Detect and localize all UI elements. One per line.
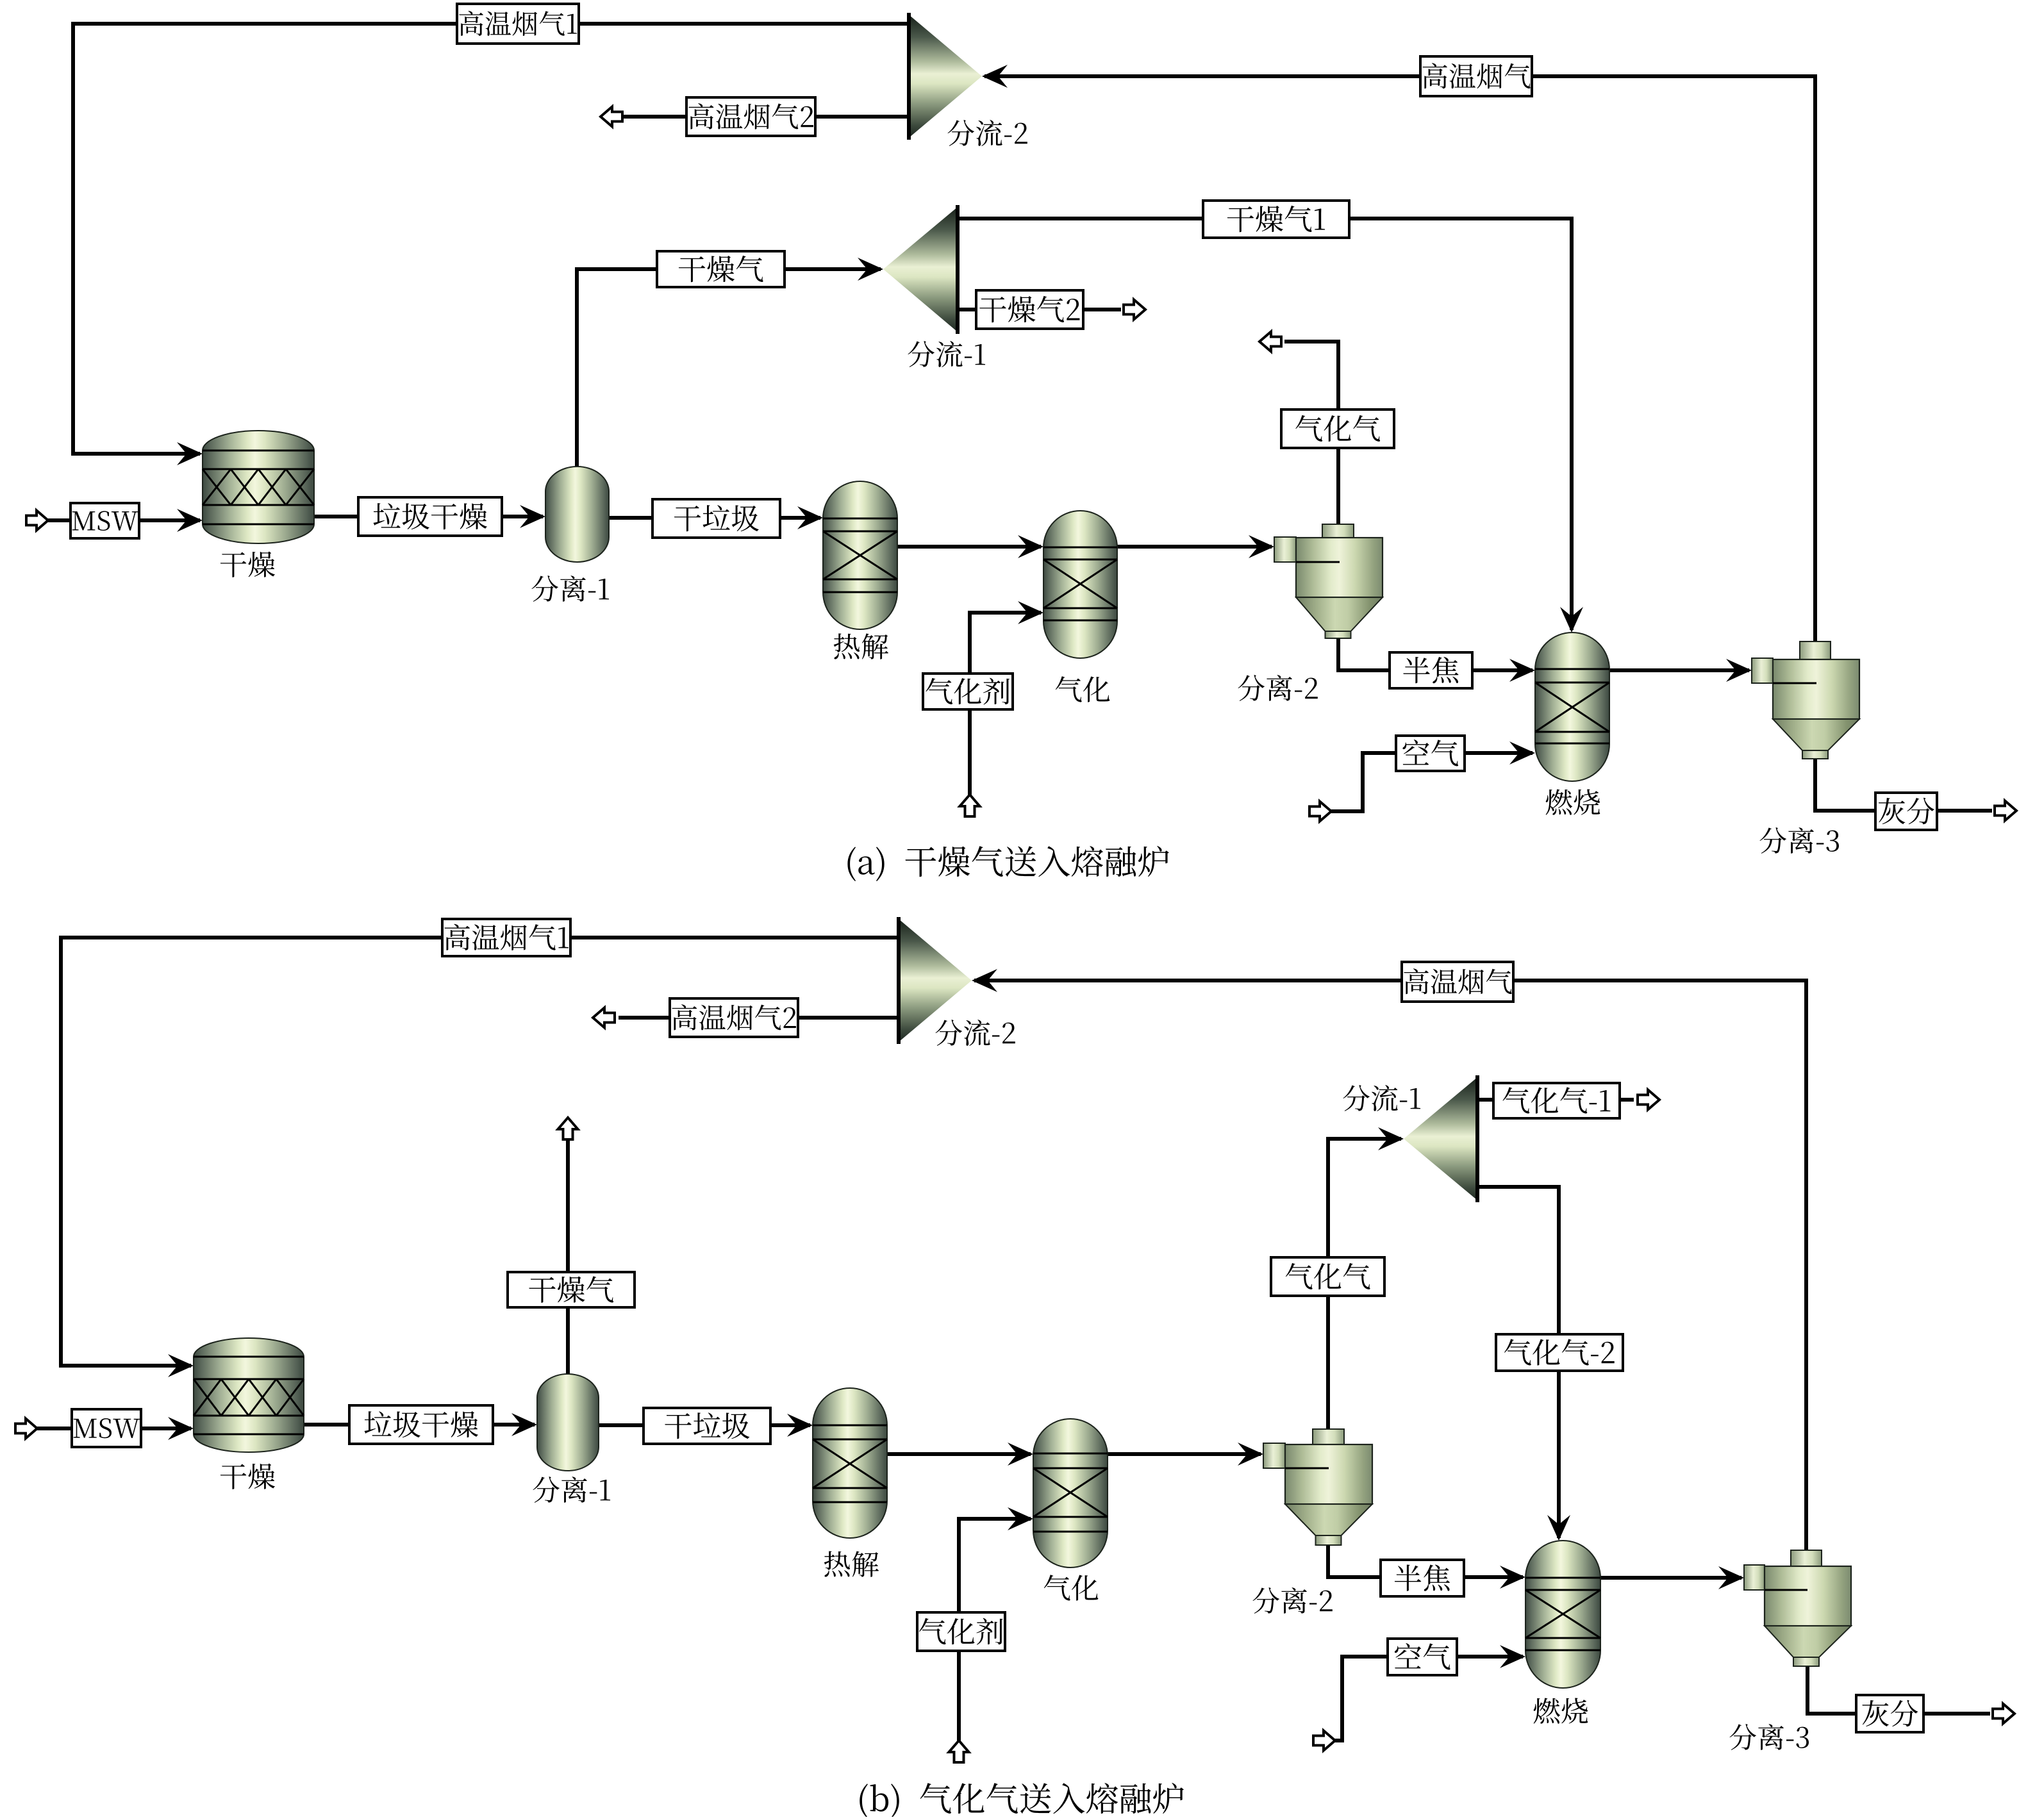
stream 空气(a) feed xyxy=(1309,802,1331,822)
stream 高温烟气(a): 分离-3 top to splitter 分流-2a apex xyxy=(985,76,1815,641)
splitter 分流-1(a) xyxy=(883,205,958,334)
unit label 干燥 xyxy=(220,552,275,577)
unit label 干燥 xyxy=(220,1464,275,1489)
stream MSW(b) feed line xyxy=(15,1419,37,1439)
stream 灰分(b): 分离-3 bottom to outlet xyxy=(1807,1666,1990,1714)
splitter 分流-2(a) xyxy=(909,13,982,140)
stream label box 气化气 xyxy=(1271,1257,1384,1296)
flash separator vessel 分离-1(a) xyxy=(545,467,609,562)
stream 高温烟气2(b): splitter to outlet xyxy=(619,1016,899,1020)
unit label 热解 xyxy=(824,1551,879,1576)
stream 干垃圾(a): flash to 热解 xyxy=(609,516,820,520)
unit label 分流-2 xyxy=(947,120,1027,146)
stream label box 气化气 xyxy=(1281,409,1394,448)
cyclone separator 分离-2(b) xyxy=(1263,1429,1372,1545)
stream label box 灰分 xyxy=(1856,1695,1923,1732)
unit label 分离-1 xyxy=(533,1477,610,1503)
stream label box 干燥气 xyxy=(508,1272,635,1307)
stream label box 空气 xyxy=(1388,1639,1457,1675)
stream 气化剂(a) feed xyxy=(960,795,980,816)
stream label box 干垃圾 xyxy=(644,1408,770,1444)
unit label 分离-3 xyxy=(1729,1724,1809,1750)
stream label box 干燥气 xyxy=(657,251,785,287)
stream 干垃圾(b): flash to 热解 xyxy=(599,1423,810,1427)
stream 干燥气2(a): splitter 分流-1a to outlet xyxy=(958,308,1121,311)
unit label 分离-2 xyxy=(1238,675,1317,701)
stream 气化 to 分离-2 (b) xyxy=(1108,1452,1261,1456)
stream MSW(a) feed line xyxy=(26,511,48,531)
stream label box 干垃圾 xyxy=(652,499,780,538)
reactor vessel 燃烧(a) xyxy=(1535,633,1609,781)
stream label box 灰分 xyxy=(1875,793,1937,830)
stream label box 高温烟气1 xyxy=(457,4,579,44)
cyclone separator 分离-2(a) xyxy=(1274,524,1383,638)
stream label box 半焦 xyxy=(1390,652,1472,688)
stream label box 高温烟气1 xyxy=(442,919,570,956)
stream 干燥气(b): flash top to up outlet xyxy=(566,1138,570,1374)
stream label box 干燥气2 xyxy=(976,290,1083,329)
stream 半焦(a): cyclone bottom to combustor xyxy=(1338,638,1533,670)
caption (b) xyxy=(860,1783,1184,1818)
stream label box 垃圾干燥 xyxy=(349,1405,493,1444)
stream 干燥气1(a): splitter 分流-1a to combustor top xyxy=(958,219,1572,630)
stream 燃烧 to 分离-3 (b) xyxy=(1600,1576,1741,1580)
stream 高温烟气1(b): splitter 分流-2b to dryer top inlet xyxy=(61,938,899,1366)
unit label 分离-2 xyxy=(1252,1587,1332,1614)
stream 高温烟气(b): 分离-3 top to splitter 分流-2b apex xyxy=(974,980,1806,1550)
stream 气化气-1(b): splitter to outlet xyxy=(1477,1098,1634,1102)
stream 气化气(b): cyclone 分离-2b top to splitter 分流-1b apex xyxy=(1328,1139,1401,1429)
stream 气化气-2(b): splitter to combustor top xyxy=(1477,1187,1559,1538)
unit label 燃烧 xyxy=(1546,789,1600,815)
unit label 分流-1 xyxy=(908,341,985,367)
stream label box 垃圾干燥 xyxy=(358,497,502,536)
stream 垃圾干燥(a): dryer to flash 分离-1a xyxy=(314,515,543,518)
flash separator vessel 分离-1(b) xyxy=(537,1374,599,1471)
stream 热解 to 气化 (a) xyxy=(897,545,1041,549)
reactor vessel 气化(a) xyxy=(1043,511,1117,658)
unit label 分流-1 xyxy=(1343,1085,1420,1111)
reactor vessel 热解(b) xyxy=(813,1388,887,1538)
stream 高温烟气1(a): splitter 分流-2a to dryer top inlet xyxy=(73,24,909,454)
unit label 分离-3 xyxy=(1759,827,1839,854)
stream label box 高温烟气 xyxy=(1420,56,1532,96)
dryer drum 干燥(a) xyxy=(203,431,314,543)
stream 气化气(a): cyclone top to outlet xyxy=(1284,342,1338,524)
cyclone separator 分离-3(a) xyxy=(1752,641,1859,759)
dryer drum 干燥(b) xyxy=(194,1338,304,1452)
unit label 分流-2 xyxy=(935,1020,1015,1046)
reactor vessel 热解(a) xyxy=(823,481,897,629)
stream 热解 to 气化 (b) xyxy=(887,1452,1031,1456)
stream 垃圾干燥(b): dryer to flash 分离-1b xyxy=(304,1423,535,1427)
stream label box MSW xyxy=(71,503,139,538)
unit label 热解 xyxy=(834,633,888,659)
unit label 气化 xyxy=(1044,1575,1099,1600)
stream label box 气化气-1 xyxy=(1493,1083,1620,1118)
unit label 燃烧 xyxy=(1534,1698,1588,1723)
stream label box 高温烟气2 xyxy=(686,97,815,136)
caption (a) xyxy=(847,846,1168,881)
stream label box 气化剂 xyxy=(917,1612,1005,1651)
stream label box 气化气-2 xyxy=(1496,1334,1623,1371)
stream 高温烟气2(a): splitter to outlet xyxy=(622,115,909,119)
stream 灰分(a): 分离-3 bottom to outlet xyxy=(1815,759,1992,811)
reactor vessel 气化(b) xyxy=(1033,1419,1108,1568)
stream 干燥气(a): flash top to splitter 分流-1a apex xyxy=(577,269,881,467)
stream 气化 to 分离-2 (a) xyxy=(1117,545,1272,549)
unit label 气化 xyxy=(1056,676,1110,702)
stream label box 高温烟气 xyxy=(1402,962,1513,1002)
splitter 分流-2(b) xyxy=(899,917,972,1044)
splitter 分流-1(b) xyxy=(1404,1075,1477,1202)
stream label box 干燥气1 xyxy=(1203,201,1349,238)
stream label box MSW xyxy=(72,1409,141,1447)
cyclone separator 分离-3(b) xyxy=(1744,1550,1851,1666)
stream 气化剂(b) feed xyxy=(949,1741,969,1762)
stream 燃烧 to 分离-3 (a) xyxy=(1609,668,1749,672)
unit label 分离-1 xyxy=(531,575,609,602)
reactor vessel 燃烧(b) xyxy=(1525,1541,1600,1688)
stream label box 高温烟气2 xyxy=(670,998,798,1037)
stream label box 空气 xyxy=(1396,736,1465,771)
stream label box 半焦 xyxy=(1381,1560,1464,1596)
stream label box 气化剂 xyxy=(923,674,1013,709)
stream 空气(b) feed xyxy=(1313,1731,1335,1751)
stream 半焦(b): cyclone bottom to combustor xyxy=(1328,1545,1523,1577)
